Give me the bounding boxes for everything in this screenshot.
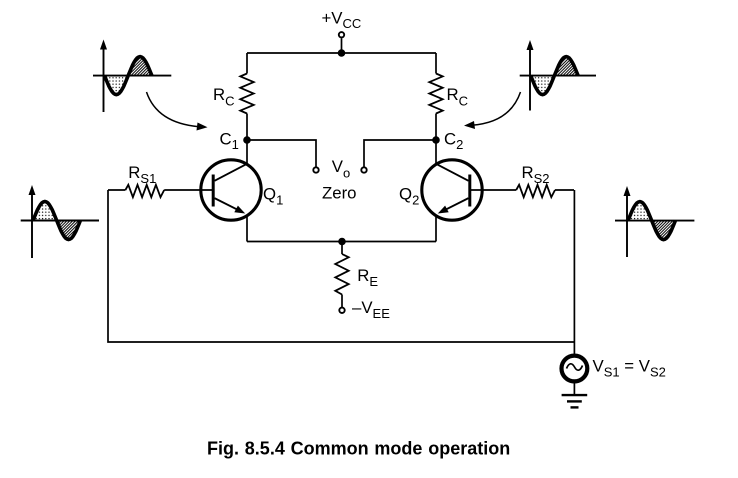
svg-text:Q1: Q1 <box>263 185 283 208</box>
resistor RS1 <box>108 185 213 197</box>
node Vcc junction dot <box>338 49 346 57</box>
wire Vcc stub <box>341 39 343 54</box>
svg-text:Q2: Q2 <box>399 185 419 208</box>
waveform mid-right <box>615 186 694 257</box>
svg-text:–VEE: –VEE <box>352 298 390 321</box>
svg-text:C1: C1 <box>220 129 239 152</box>
resistor RS2 <box>470 185 574 197</box>
waveform top-right <box>520 40 596 111</box>
resistor RC left <box>240 74 253 114</box>
svg-text:RC: RC <box>213 85 235 108</box>
node C1 junction dot <box>243 136 251 144</box>
svg-text:RS1: RS1 <box>128 163 156 186</box>
node RE junction dot <box>338 238 346 246</box>
wire C2 to Vo right terminal <box>364 140 436 167</box>
wire left source loop <box>108 190 574 342</box>
svg-text:Vo: Vo <box>332 157 350 181</box>
svg-text:Zero: Zero <box>322 184 357 203</box>
wire left collector lower <box>246 114 248 164</box>
wire right collector upper <box>435 53 437 74</box>
wire RE lower stub <box>341 295 343 308</box>
wire Q2 emitter down <box>435 216 437 242</box>
arrow top-left to C1 <box>147 92 208 131</box>
svg-text:RS2: RS2 <box>522 163 550 186</box>
ground <box>562 395 588 407</box>
terminal -Vee open circle <box>339 308 344 313</box>
svg-text:VS1 = VS2: VS1 = VS2 <box>593 356 666 379</box>
svg-text:RE: RE <box>357 266 378 289</box>
terminal Vo left open circle <box>313 167 318 172</box>
wire emitter bus <box>247 241 436 243</box>
waveform mid-left <box>21 185 99 258</box>
terminal +Vcc open circle <box>339 32 344 37</box>
wire C1 to Vo left terminal <box>247 140 316 167</box>
svg-text:RC: RC <box>447 85 469 108</box>
waveform top-left <box>93 40 171 113</box>
wire RE upper stub <box>341 242 343 255</box>
wire top rail <box>247 52 436 54</box>
svg-text:Fig. 8.5.4 Common mode operati: Fig. 8.5.4 Common mode operation <box>207 439 510 459</box>
svg-text:+VCC: +VCC <box>322 9 362 31</box>
transistor Q1 <box>201 160 261 220</box>
resistor RC right <box>429 74 442 114</box>
terminal Vo right open circle <box>361 167 366 172</box>
wire Q1 emitter down <box>246 216 248 242</box>
wire source to ground <box>573 190 575 395</box>
transistor Q2 <box>422 160 482 220</box>
node C2 junction dot <box>432 136 440 144</box>
wire left collector upper <box>246 53 248 74</box>
svg-text:C2: C2 <box>444 129 463 152</box>
resistor RE <box>335 254 348 295</box>
wire right collector lower <box>435 114 437 164</box>
source Vs1 <box>562 356 588 382</box>
arrow top-right to C2 <box>464 92 521 129</box>
